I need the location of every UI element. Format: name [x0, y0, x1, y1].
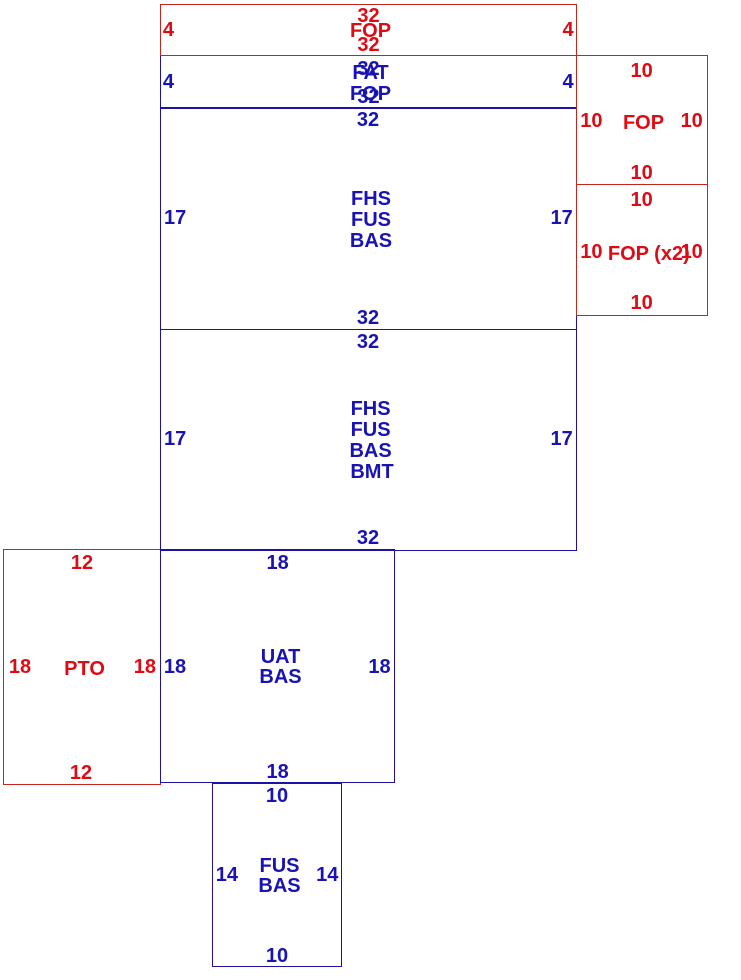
- panel C label FHS: [351, 189, 391, 209]
- panel D FHS/FUS/BAS/BMT rect: [160, 329, 578, 551]
- panel H top dim 18: [266, 553, 288, 573]
- panel H right dim 18: [368, 657, 390, 677]
- panel I bottom dim 10: [266, 946, 288, 966]
- panel B label FAT: [352, 63, 388, 83]
- panel H UAT/BAS rect: [160, 549, 396, 783]
- panel D left dim 17: [164, 429, 186, 449]
- panel B label FOP: [350, 84, 391, 104]
- panel B top dim 32: [357, 59, 379, 79]
- panel I right dim 14: [316, 865, 338, 885]
- panel D label BAS: [349, 441, 391, 461]
- panel H label BAS: [259, 667, 301, 687]
- panel E right dim 10: [681, 111, 703, 131]
- panel E left dim 10: [580, 111, 602, 131]
- panel E FOP rect: [576, 55, 708, 185]
- panel G PTO rect: [3, 549, 161, 784]
- panel A left dim 4: [163, 20, 174, 40]
- panel F left dim 10: [580, 242, 602, 262]
- panel D right dim 17: [550, 429, 572, 449]
- panel G right dim 18: [134, 657, 156, 677]
- panel C label FUS: [351, 210, 391, 230]
- panel B bottom dim 32: [357, 87, 379, 107]
- panel G label PTO: [64, 659, 105, 679]
- panel I left dim 14: [216, 865, 238, 885]
- panel A bottom dim 32: [357, 35, 379, 55]
- panel I label BAS: [258, 876, 300, 896]
- panel D top dim 32: [357, 332, 379, 352]
- panel I label FUS: [260, 856, 300, 876]
- panel C bottom dim 32: [357, 308, 379, 328]
- panel I top dim 10: [266, 786, 288, 806]
- panel A right dim 4: [562, 20, 573, 40]
- panel I FUS/BAS rect: [212, 783, 342, 967]
- panel A FOP rect: [160, 4, 577, 57]
- panel C label BAS: [350, 231, 392, 251]
- panel H left dim 18: [164, 657, 186, 677]
- panel G left dim 18: [9, 657, 31, 677]
- panel D label BMT: [350, 462, 393, 482]
- panel B left dim 4: [163, 72, 174, 92]
- panel E bottom dim 10: [630, 163, 652, 183]
- panel H label UAT: [261, 647, 301, 667]
- panel E top dim 10: [630, 61, 652, 81]
- panel D label FUS: [351, 420, 391, 440]
- panel F bottom dim 10: [630, 293, 652, 313]
- panel C top dim 32: [357, 110, 379, 130]
- panel A label FOP: [350, 21, 391, 41]
- panel C FHS/FUS/BAS rect: [160, 107, 578, 330]
- panel E label FOP: [623, 113, 664, 133]
- panel F FOP (x2) rect: [576, 184, 708, 316]
- panel A top dim 32: [357, 6, 379, 26]
- panel B FAT/FOP rect: [160, 55, 578, 109]
- panel H bottom dim 18: [266, 762, 288, 782]
- panel C left dim 17: [164, 208, 186, 228]
- panel G bottom dim 12: [70, 763, 92, 783]
- panel C right dim 17: [550, 208, 572, 228]
- panel D label FHS: [351, 399, 391, 419]
- panel D bottom dim 32: [357, 528, 379, 548]
- panel G top dim 12: [71, 553, 93, 573]
- panel F top dim 10: [630, 190, 652, 210]
- panel B right dim 4: [562, 72, 573, 92]
- panel F label FOP (x2): [608, 244, 690, 264]
- panel F right dim 10: [681, 242, 703, 262]
